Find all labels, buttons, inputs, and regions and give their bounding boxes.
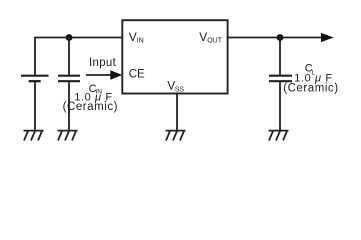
- svg-text:IN: IN: [137, 37, 144, 44]
- node: junction dot on VOUT wire: [277, 34, 284, 41]
- svg-text:Input: Input: [89, 57, 117, 69]
- label CIN value 1.0uF: [74, 91, 112, 103]
- CE input arrowhead: [110, 70, 122, 79]
- svg-text:OUT: OUT: [207, 37, 223, 44]
- pin label CE: [129, 69, 145, 81]
- output arrowhead: [321, 33, 334, 42]
- svg-text:(Ceramic): (Ceramic): [63, 101, 118, 113]
- ground (CIN): [58, 131, 78, 141]
- label CL designator: [305, 62, 316, 76]
- svg-text:SS: SS: [175, 86, 185, 93]
- capacitor CL: [269, 76, 292, 82]
- label CIN (Ceramic): [63, 101, 118, 113]
- regulator IC U1 (box): [122, 20, 227, 93]
- wire: CL top drop: [279, 38, 281, 75]
- wire: VSS to ground: [176, 94, 178, 131]
- ground (battery): [24, 131, 44, 141]
- ground (CL): [269, 131, 289, 141]
- wire: CE input line: [86, 74, 112, 76]
- pin label VOUT: [199, 30, 222, 45]
- svg-text:V: V: [199, 30, 207, 44]
- wire: VOUT horizontal: [228, 37, 323, 39]
- wire: battery to ground: [34, 81, 36, 130]
- svg-text:CE: CE: [129, 69, 145, 81]
- wire: CL to ground: [279, 81, 281, 130]
- svg-text:V: V: [129, 30, 137, 44]
- wire: CIN to ground: [68, 81, 70, 130]
- pin label VSS: [167, 79, 184, 94]
- label CIN designator: [89, 83, 102, 96]
- ground (VSS): [166, 131, 186, 141]
- pin label VIN: [129, 30, 144, 45]
- wire: VIN horizontal (battery/CIN to pin VIN): [35, 37, 122, 39]
- label CL value 1.0uF: [294, 72, 332, 84]
- wire: CIN top drop: [68, 38, 70, 75]
- label Input: [89, 57, 117, 69]
- node: junction dot on VIN wire: [66, 34, 73, 41]
- battery (input supply): [21, 76, 49, 82]
- label CL (Ceramic): [283, 82, 338, 94]
- svg-text:(Ceramic): (Ceramic): [283, 82, 338, 94]
- wire: battery top drop: [34, 37, 36, 75]
- capacitor CIN: [58, 76, 80, 82]
